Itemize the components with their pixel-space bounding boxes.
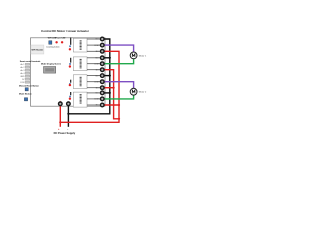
LED red top 2 xyxy=(61,41,63,43)
svg-text:An 2: An 2 xyxy=(21,66,25,69)
relay box 4 xyxy=(73,92,87,107)
svg-text:GND: GND xyxy=(20,76,25,78)
channel marker blue 3 xyxy=(69,83,70,84)
svg-text:Power LED: Power LED xyxy=(55,38,66,40)
mode button (blue) xyxy=(24,98,27,101)
mode display screen xyxy=(44,67,56,74)
channel marker blue 1 xyxy=(69,45,71,47)
svg-text:COM: COM xyxy=(94,45,99,47)
channel rod 4 xyxy=(70,92,71,95)
WiFi module box xyxy=(31,45,44,54)
black junction dots xyxy=(109,57,111,59)
svg-text:Smart control terminals: Smart control terminals xyxy=(20,60,42,63)
svg-text:Motor 2: Motor 2 xyxy=(139,91,147,94)
svg-text:COM: COM xyxy=(94,63,99,65)
svg-text:+: + xyxy=(58,127,60,131)
relay LED 4 xyxy=(69,98,71,100)
svg-text:COM: COM xyxy=(20,82,25,84)
wire red bus xyxy=(60,51,119,127)
relay box 1 xyxy=(73,38,87,52)
svg-text:Motor 1: Motor 1 xyxy=(139,54,147,57)
learning button (blue) xyxy=(49,41,52,45)
svg-text:Learning button: Learning button xyxy=(46,45,60,48)
relay LED 2 xyxy=(69,65,71,67)
svg-text:DC Power Supply: DC Power Supply xyxy=(54,131,76,135)
svg-text:An 3: An 3 xyxy=(21,69,25,72)
svg-text:An 4: An 4 xyxy=(21,72,25,75)
main panel xyxy=(31,38,106,106)
relay terminal stubs xyxy=(87,39,100,105)
row labels xyxy=(20,63,25,84)
wire black bus xyxy=(68,39,109,127)
wire green motor2 xyxy=(102,95,133,99)
reset button (blue) xyxy=(25,88,28,91)
motor 2 xyxy=(130,88,147,95)
NO COM NC labels xyxy=(94,39,99,107)
relay box 2 xyxy=(73,57,87,71)
channel rod 2 xyxy=(70,58,71,63)
svg-text:Mode Button: Mode Button xyxy=(19,93,32,96)
smart terminal strip rows xyxy=(25,63,30,83)
wire purple motor2 xyxy=(102,82,133,89)
channel rod 3 xyxy=(70,80,71,83)
svg-text:Control DC Motor / Linear Actu: Control DC Motor / Linear Actuator xyxy=(41,29,90,33)
relay box 3 xyxy=(73,75,87,89)
relay terminals (12 circles) xyxy=(100,37,104,107)
svg-text:Manual Reset Button: Manual Reset Button xyxy=(19,84,40,87)
relay LED 3 xyxy=(69,84,71,86)
svg-text:COM: COM xyxy=(94,99,99,101)
LED red top 1 xyxy=(55,41,57,43)
svg-text:-: - xyxy=(67,127,68,131)
antenna xyxy=(70,37,71,44)
svg-text:WiFi Module: WiFi Module xyxy=(32,49,45,51)
wire purple motor1 xyxy=(102,45,133,52)
svg-text:COM: COM xyxy=(94,81,99,83)
motor 1 xyxy=(130,52,147,59)
channel marker blue 2 xyxy=(69,63,71,65)
svg-text:Mode Display Screen: Mode Display Screen xyxy=(41,63,62,66)
relay LED 1 xyxy=(69,48,71,50)
red junction dots xyxy=(113,87,115,89)
wire green motor1 xyxy=(102,59,133,64)
svg-text:An 1: An 1 xyxy=(21,63,25,66)
channel marker blue 4 xyxy=(69,96,71,98)
